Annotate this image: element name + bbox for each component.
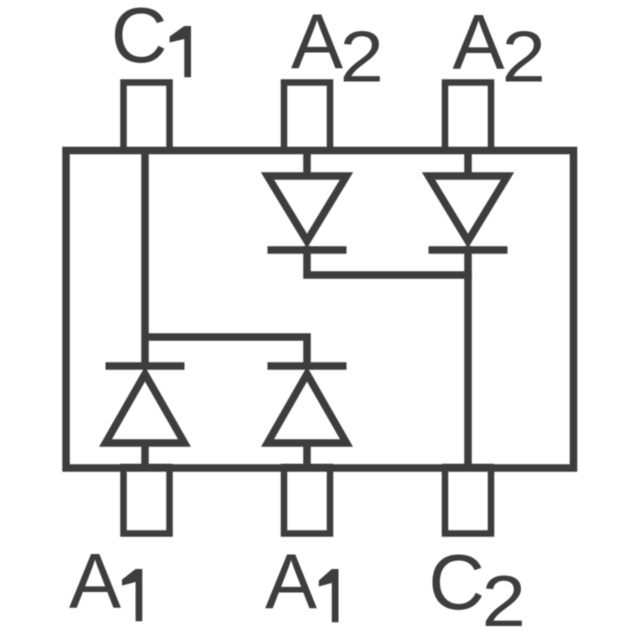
pin 3 A2 (top right) (445, 83, 491, 151)
pin 6 C2 (bottom right) (445, 467, 491, 534)
svg-text:2: 2 (482, 561, 526, 640)
svg-text:2: 2 (340, 17, 384, 98)
pin A2 (top middle) label A2 (291, 0, 384, 98)
wire A2 (top right) pin to diode D4 anode (464, 151, 472, 177)
pin A1 (bottom left) label A1 (69, 537, 142, 625)
svg-text:A: A (265, 537, 317, 625)
pin A1 (bottom middle) label A1 (265, 537, 339, 625)
svg-text:A: A (453, 0, 505, 86)
wire C1 pin to lower-left diode cathode (node C1) (141, 151, 149, 367)
svg-text:A: A (69, 537, 121, 625)
svg-text:C: C (429, 538, 485, 626)
pin A2 (top right) label A2 (453, 0, 546, 98)
pin C2 label C2 (429, 538, 526, 640)
pin 2 A2 (top middle) (284, 83, 330, 151)
wire D3 cathode down to common node (307, 246, 468, 467)
diode D3 (upper middle, cathode down) (268, 176, 347, 250)
node C2 junction (D4 cathode tie) (464, 246, 472, 280)
wire D1 anode to A1 pin (bottom left) (141, 443, 149, 467)
wire A2 (top middle) pin to diode D3 anode (303, 151, 311, 177)
pin C1 label C1 (111, 0, 191, 79)
diode D1 (lower left, cathode up) (106, 366, 185, 443)
svg-text:2: 2 (502, 17, 546, 98)
svg-text:C: C (111, 0, 167, 79)
pin 5 A1 (bottom middle) (284, 467, 330, 534)
wire D2 anode to A1 pin (bottom middle) (303, 443, 311, 467)
diode D2 (lower middle, cathode up) (268, 366, 347, 443)
pin 4 A1 (bottom left) (124, 467, 170, 534)
wire C1 column to middle lower diode (horizontal branch) (145, 337, 307, 366)
package outline (66, 151, 574, 469)
pin 1 C1 (top left) (124, 83, 170, 151)
diode D4 (upper right, cathode down) (429, 176, 508, 250)
svg-text:A: A (291, 0, 343, 85)
